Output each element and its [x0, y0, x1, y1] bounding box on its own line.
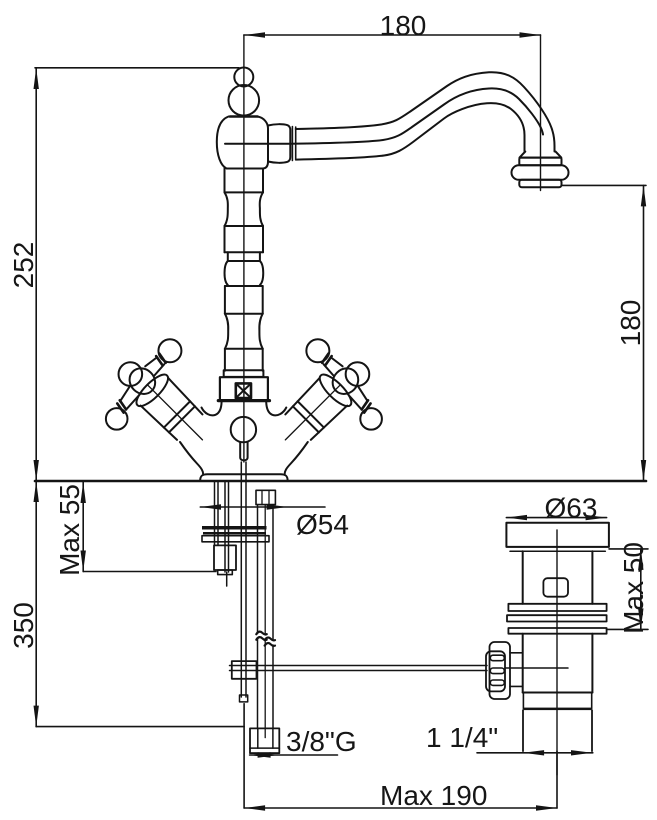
left arm inner ball: [101, 404, 132, 435]
spout middle contour: [225, 88, 543, 143]
left handle: [85, 326, 239, 480]
overflow hole: [543, 578, 568, 597]
left arm inner neck: [117, 385, 140, 408]
supply pipe: [257, 505, 259, 633]
spout collar at head: [268, 124, 290, 163]
collar box: [220, 377, 268, 400]
right arm outer neck: [323, 356, 343, 376]
right boss centerline: [285, 385, 340, 440]
svg-text:Max 55: Max 55: [54, 484, 85, 576]
below deck: stud 2: [224, 482, 226, 572]
faucet body outline left saddle: [202, 402, 222, 416]
faucet base plate: [200, 474, 287, 481]
faucet finial small ball: [234, 68, 253, 87]
dimension 3/8"G bottom: [250, 752, 338, 757]
rod clamp block: [232, 661, 257, 679]
svg-text:Max 190: Max 190: [380, 780, 487, 811]
right near ball: [341, 357, 374, 390]
spout bottom contour: [296, 103, 525, 159]
svg-text:3/8"G: 3/8"G: [286, 726, 357, 757]
thin washer bar: [203, 532, 266, 535]
drain flange: [506, 523, 609, 547]
drain ring 1: [508, 604, 606, 611]
faucet column: [225, 169, 264, 371]
supply pipe lower: [257, 639, 259, 729]
svg-text:1 1/4": 1 1/4": [426, 722, 498, 753]
dimension Max 190 bottom: [244, 704, 557, 811]
dimension 1 1/4" bottom right: [477, 750, 593, 755]
faucet body outline right saddle: [266, 402, 286, 416]
below deck: stud 1: [214, 482, 216, 545]
right valve boss: [284, 378, 347, 441]
svg-text:252: 252: [8, 242, 39, 289]
X mark square: [236, 383, 251, 398]
svg-text:Ø63: Ø63: [545, 493, 598, 524]
faucet body outline right flare: [285, 442, 308, 474]
left near ball: [114, 357, 147, 390]
faucet neck under ball: [230, 115, 258, 118]
pop-up rod end: [240, 695, 248, 702]
faucet head body: [217, 117, 268, 169]
washer plate: [202, 536, 269, 542]
dimension 350 left: [34, 481, 245, 727]
svg-text:Ø54: Ø54: [296, 509, 349, 540]
pop-up lift rod: [240, 462, 242, 697]
dimension 180 top: [244, 32, 541, 37]
mounting nut: [214, 545, 236, 570]
horizontal linkage rod: [230, 665, 488, 667]
dimension 252 left: [34, 68, 240, 481]
right arm inner ball: [356, 404, 387, 435]
left flange: [132, 370, 172, 410]
spout end band 2: [519, 158, 561, 166]
wire spout end axis: [540, 35, 542, 191]
drain slip ring: [522, 693, 524, 709]
right arm outer ball: [302, 335, 335, 368]
dimension Max 55 left: [81, 482, 217, 572]
right flange: [315, 370, 355, 410]
pipe break symbol: [256, 632, 266, 635]
spout end torus: [512, 165, 569, 180]
svg-text:350: 350: [8, 602, 39, 649]
wire faucet center axis: [243, 35, 245, 462]
gasket bar: [202, 526, 267, 530]
column collar band: [224, 370, 264, 377]
svg-text:180: 180: [380, 10, 427, 41]
right handle: [249, 326, 403, 480]
right hub: [327, 363, 363, 399]
spout top contour: [296, 72, 555, 151]
drain ring 3: [508, 628, 606, 634]
dimension diameter 54: [200, 504, 325, 509]
knurled nut: [490, 642, 511, 699]
dimension diameter 63: [506, 515, 606, 520]
deck line: [35, 480, 646, 483]
spout end band 3: [519, 180, 561, 188]
left boss centerline: [147, 385, 202, 440]
svg-text:180: 180: [615, 300, 646, 347]
3/8 G fitting: [250, 728, 279, 753]
pop-up knob ball: [231, 417, 256, 442]
faucet finial large ball: [229, 85, 260, 116]
right arm inner neck: [347, 385, 370, 408]
drain upper body: [522, 551, 524, 604]
spout end flare: [520, 152, 562, 158]
pop-up knob stem: [240, 442, 247, 460]
left hub: [124, 363, 160, 399]
pipe connection nut: [256, 490, 275, 504]
drain tailpipe: [522, 710, 524, 751]
drain ring 2: [507, 615, 607, 621]
faucet body outline left flare: [180, 442, 203, 474]
drain lower body: [522, 634, 524, 693]
dimension 180 right: [562, 185, 647, 481]
left arm outer ball: [154, 335, 187, 368]
dimension Max 50 right: [607, 549, 648, 630]
left arm outer neck: [145, 356, 165, 376]
left valve boss: [141, 378, 204, 441]
wire drain axis: [556, 530, 558, 775]
svg-text:Max 50: Max 50: [618, 542, 649, 634]
